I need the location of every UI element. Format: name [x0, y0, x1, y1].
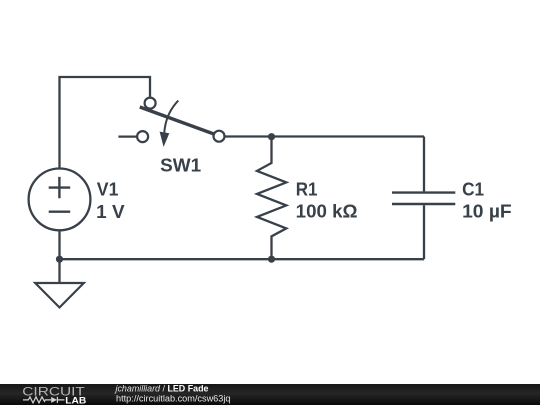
svg-text:SW1: SW1: [160, 156, 201, 176]
svg-text:C1: C1: [462, 179, 484, 199]
wire: SW1 right terminal to C1 top (through node A): [224, 135, 424, 137]
svg-text:LAB: LAB: [65, 395, 87, 405]
junction: R1 bottom / ground rail: [268, 256, 275, 263]
SW1 throw terminal (right): [214, 131, 225, 142]
svg-text:R1: R1: [296, 179, 318, 199]
wire: bottom rail ground net: [60, 258, 425, 260]
wire: stub to SW1 left terminal: [118, 136, 136, 138]
svg-text:V1: V1: [97, 180, 119, 200]
svg-text:jchamilliard / LED Fade: jchamilliard / LED Fade: [115, 384, 209, 394]
svg-text:10 µF: 10 µF: [462, 202, 512, 222]
ground: [35, 283, 84, 308]
voltage source V1: [29, 169, 91, 231]
capacitor C1: [392, 137, 455, 260]
SW1 blade: [140, 107, 214, 134]
CircuitLab logo resistor-diode glyph: [23, 397, 64, 403]
SW1 unconnected terminal (left): [137, 131, 148, 142]
svg-text:100 kΩ: 100 kΩ: [296, 202, 358, 222]
junction: V1 bottom / ground rail: [56, 256, 63, 263]
footer bar: [0, 384, 540, 405]
switch SW1: [118, 98, 224, 147]
wire: V1 top to SW1 top terminal: [60, 77, 151, 169]
SW1 pole terminal (top): [145, 98, 156, 109]
svg-text:1 V: 1 V: [96, 202, 124, 222]
wire: V1 bottom to ground: [58, 231, 60, 284]
resistor R1: [257, 137, 286, 260]
node A (junction dot, SW1/R1/C1 top): [268, 133, 275, 140]
svg-text:http://circuitlab.com/csw63jq: http://circuitlab.com/csw63jq: [116, 393, 231, 403]
SW1 actuation arrow: [164, 101, 178, 133]
